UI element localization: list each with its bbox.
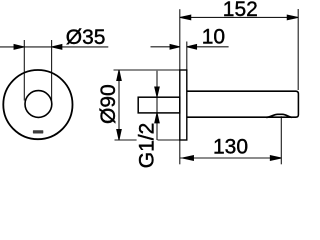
svg-text:Ø90: Ø90 (97, 84, 120, 124)
svg-text:Ø35: Ø35 (66, 26, 106, 49)
svg-text:152: 152 (223, 0, 258, 21)
svg-text:G1/2: G1/2 (135, 123, 158, 169)
svg-text:130: 130 (213, 136, 248, 159)
svg-text:10: 10 (202, 25, 225, 48)
